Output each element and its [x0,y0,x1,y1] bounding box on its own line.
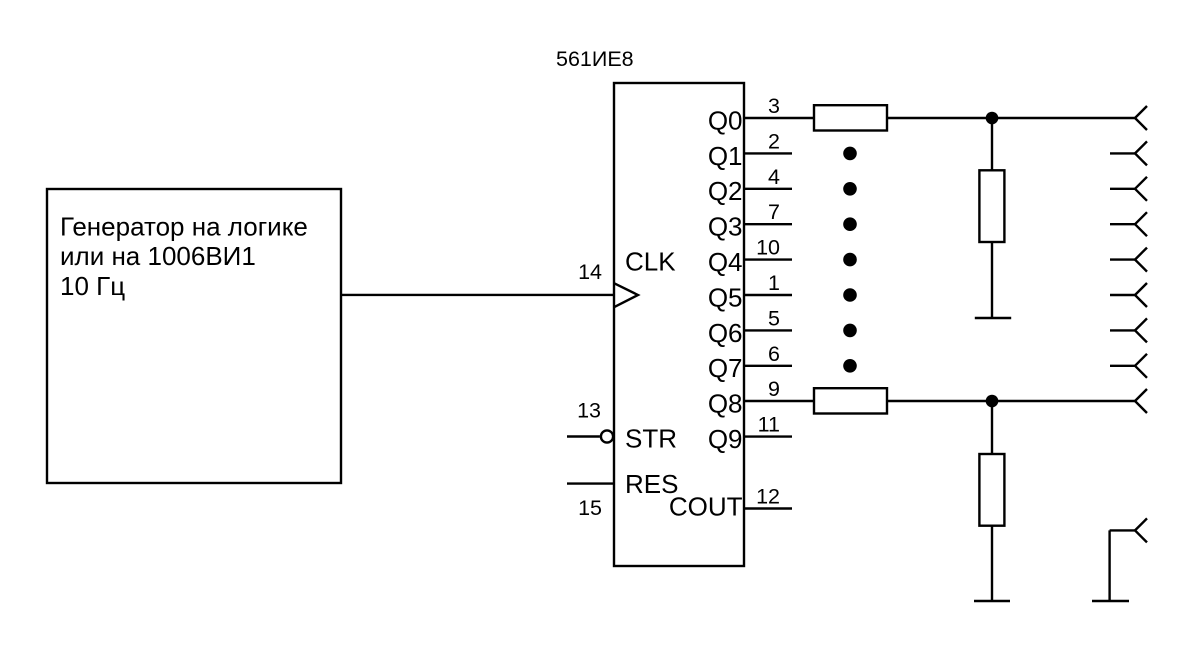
svg-text:14: 14 [578,260,602,284]
svg-text:5: 5 [768,306,780,330]
svg-text:1: 1 [768,271,780,295]
svg-text:7: 7 [768,200,780,224]
svg-text:Q8: Q8 [708,388,743,418]
svg-text:Q1: Q1 [708,141,743,171]
svg-text:STR: STR [625,423,677,453]
svg-text:15: 15 [578,496,602,520]
svg-text:13: 13 [577,399,601,423]
svg-text:CLK: CLK [625,246,676,276]
svg-text:или на 1006ВИ1: или на 1006ВИ1 [60,241,256,271]
svg-text:11: 11 [758,413,780,437]
svg-text:Q7: Q7 [708,353,743,383]
svg-text:Q2: Q2 [708,176,743,206]
svg-text:9: 9 [768,377,780,401]
svg-text:4: 4 [768,165,780,189]
svg-text:561ИЕ8: 561ИЕ8 [556,47,634,71]
svg-text:6: 6 [768,342,780,366]
svg-text:Генератор на логике: Генератор на логике [60,212,308,242]
svg-text:2: 2 [768,129,780,153]
svg-text:10 Гц: 10 Гц [60,271,125,301]
svg-text:Q9: Q9 [708,424,743,454]
svg-text:10: 10 [756,236,780,260]
svg-text:Q5: Q5 [708,282,743,312]
svg-text:Q3: Q3 [708,212,743,242]
svg-text:3: 3 [768,94,780,118]
svg-text:Q0: Q0 [708,105,743,135]
svg-text:Q6: Q6 [708,318,743,348]
svg-text:Q4: Q4 [708,247,743,277]
svg-text:12: 12 [756,485,780,509]
svg-text:COUT: COUT [669,492,743,522]
